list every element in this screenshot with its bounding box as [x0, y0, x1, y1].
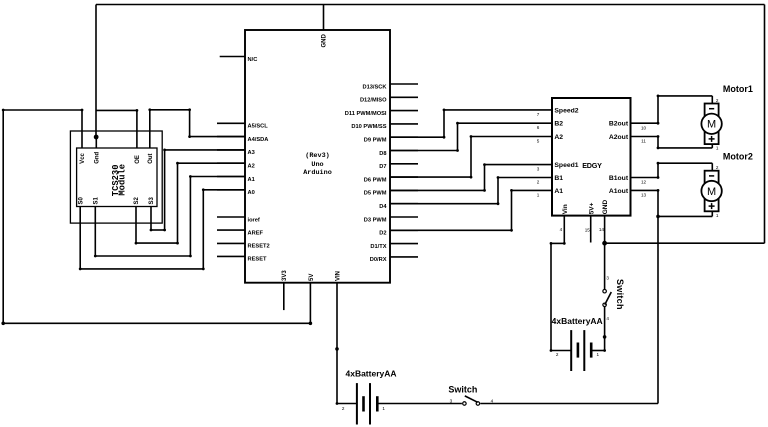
svg-text:5V+: 5V+: [588, 202, 595, 214]
svg-text:B2out: B2out: [609, 121, 629, 128]
svg-text:2: 2: [537, 180, 540, 185]
svg-text:1: 1: [597, 352, 600, 357]
svg-text:D10 PWM/SS: D10 PWM/SS: [351, 124, 386, 130]
svg-text:4: 4: [606, 316, 609, 321]
svg-text:D11 PWM/MOSI: D11 PWM/MOSI: [345, 111, 387, 117]
svg-text:VIN: VIN: [335, 271, 341, 281]
svg-text:Module: Module: [118, 164, 128, 196]
svg-text:D2: D2: [379, 231, 386, 237]
svg-text:RESET2: RESET2: [248, 244, 270, 250]
svg-text:1: 1: [716, 213, 719, 218]
svg-text:Out: Out: [148, 153, 154, 163]
svg-text:S2: S2: [134, 196, 140, 204]
svg-text:A5/SCL: A5/SCL: [248, 124, 269, 130]
svg-text:(Rev3): (Rev3): [305, 152, 329, 160]
svg-text:D6 PWM: D6 PWM: [364, 177, 387, 183]
svg-text:S1: S1: [94, 196, 100, 204]
svg-text:Arduino: Arduino: [303, 169, 332, 177]
svg-text:B2: B2: [554, 121, 563, 128]
svg-text:D1/TX: D1/TX: [370, 244, 386, 250]
svg-text:D3 PWM: D3 PWM: [364, 217, 387, 223]
svg-text:3: 3: [606, 275, 609, 280]
svg-text:A1: A1: [248, 177, 255, 183]
svg-text:S0: S0: [78, 196, 84, 204]
svg-text:5V: 5V: [309, 274, 315, 281]
svg-text:AREF: AREF: [248, 230, 264, 236]
svg-text:2: 2: [342, 406, 345, 411]
svg-text:4: 4: [491, 398, 494, 403]
svg-text:GND: GND: [602, 200, 609, 215]
svg-text:B1out: B1out: [609, 175, 629, 182]
svg-text:D12/MISO: D12/MISO: [360, 98, 387, 104]
svg-text:1: 1: [537, 192, 540, 197]
svg-text:A3: A3: [248, 150, 255, 156]
svg-text:EDGY: EDGY: [582, 161, 602, 170]
svg-text:2: 2: [556, 352, 559, 357]
svg-text:A2out: A2out: [609, 134, 629, 141]
svg-text:S3: S3: [149, 196, 155, 204]
svg-text:Gnd: Gnd: [95, 151, 101, 163]
svg-text:D13/SCK: D13/SCK: [362, 84, 387, 90]
svg-text:13: 13: [641, 193, 647, 198]
svg-text:Vcc: Vcc: [80, 152, 86, 163]
svg-text:A2: A2: [554, 134, 563, 141]
svg-text:A1: A1: [554, 188, 563, 195]
svg-text:3V3: 3V3: [282, 270, 288, 281]
svg-text:A1out: A1out: [609, 188, 629, 195]
svg-text:Vin: Vin: [562, 204, 569, 214]
svg-text:14: 14: [599, 227, 605, 232]
svg-text:3: 3: [537, 167, 540, 172]
svg-text:2: 2: [716, 98, 719, 103]
svg-text:Motor1: Motor1: [723, 84, 753, 94]
svg-text:1: 1: [382, 406, 385, 411]
svg-text:5: 5: [537, 139, 540, 144]
svg-text:4xBatteryAA: 4xBatteryAA: [345, 369, 396, 379]
svg-text:A4/SDA: A4/SDA: [248, 137, 269, 143]
svg-text:3: 3: [450, 398, 453, 403]
svg-text:4: 4: [560, 227, 563, 232]
svg-text:Motor2: Motor2: [723, 151, 753, 161]
svg-text:GND: GND: [322, 34, 328, 48]
svg-text:15: 15: [585, 227, 591, 232]
svg-text:ioref: ioref: [248, 217, 260, 223]
svg-text:12: 12: [641, 180, 647, 185]
svg-text:A2: A2: [248, 164, 255, 170]
svg-text:OE: OE: [135, 155, 141, 164]
svg-text:Switch: Switch: [448, 385, 477, 395]
svg-text:6: 6: [537, 125, 540, 130]
svg-text:D4: D4: [379, 204, 387, 210]
svg-text:D9 PWM: D9 PWM: [364, 138, 387, 144]
svg-text:D5 PWM: D5 PWM: [364, 191, 387, 197]
svg-text:N/C: N/C: [248, 57, 258, 63]
svg-text:Speed2: Speed2: [554, 107, 578, 114]
svg-text:A0: A0: [248, 190, 255, 196]
svg-text:7: 7: [537, 112, 540, 117]
svg-text:Switch: Switch: [615, 279, 625, 310]
svg-text:Uno: Uno: [311, 161, 323, 169]
svg-text:1: 1: [716, 146, 719, 151]
svg-text:2: 2: [716, 165, 719, 170]
svg-text:RESET: RESET: [248, 257, 267, 263]
svg-text:D0/RX: D0/RX: [370, 257, 387, 263]
svg-text:B1: B1: [554, 175, 563, 182]
svg-text:D7: D7: [379, 164, 386, 170]
svg-text:10: 10: [641, 125, 647, 130]
svg-text:4xBatteryAA: 4xBatteryAA: [552, 316, 603, 326]
svg-text:11: 11: [641, 139, 646, 144]
svg-text:M: M: [707, 186, 716, 198]
svg-text:D8: D8: [379, 151, 386, 157]
svg-text:M: M: [707, 119, 716, 131]
svg-text:Speed1: Speed1: [554, 162, 578, 169]
